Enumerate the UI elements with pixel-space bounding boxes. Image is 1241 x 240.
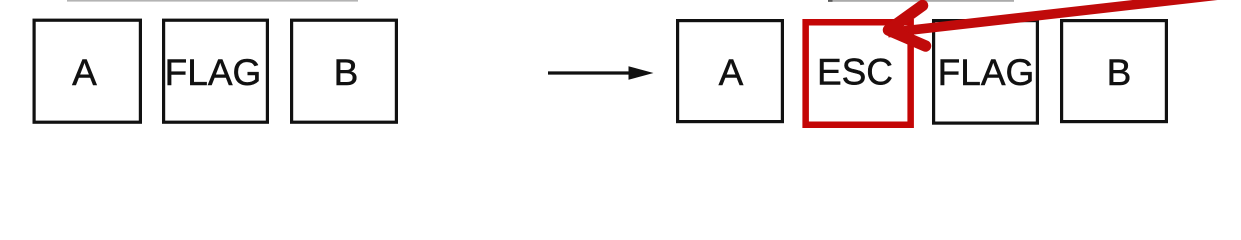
svg-text:B: B xyxy=(1107,52,1132,93)
transform arrow head (black) xyxy=(629,66,654,80)
svg-text:ESC: ESC xyxy=(817,52,893,93)
box A (left frame) xyxy=(34,20,140,122)
box A (right frame) xyxy=(678,21,783,122)
red callout arrow head barbs xyxy=(889,6,926,47)
svg-text:B: B xyxy=(334,52,359,93)
top gray line left segment xyxy=(67,0,358,2)
top gray line right segment xyxy=(828,0,1014,2)
transform arrow shaft (black) xyxy=(548,71,631,74)
stuffed ESC highlight box (red frame) xyxy=(806,22,911,125)
box B (right frame) xyxy=(1062,21,1167,122)
svg-text:FLAG: FLAG xyxy=(165,52,262,93)
box FLAG (left frame) xyxy=(164,20,268,122)
svg-text:FLAG: FLAG xyxy=(938,52,1035,93)
box FLAG (right frame) xyxy=(934,21,1038,124)
svg-text:A: A xyxy=(72,52,97,93)
svg-text:A: A xyxy=(719,52,744,93)
box B (left frame) xyxy=(292,20,397,122)
red callout arrow shaft xyxy=(888,0,1241,33)
dark blob at start of right gray segment xyxy=(828,0,833,2)
